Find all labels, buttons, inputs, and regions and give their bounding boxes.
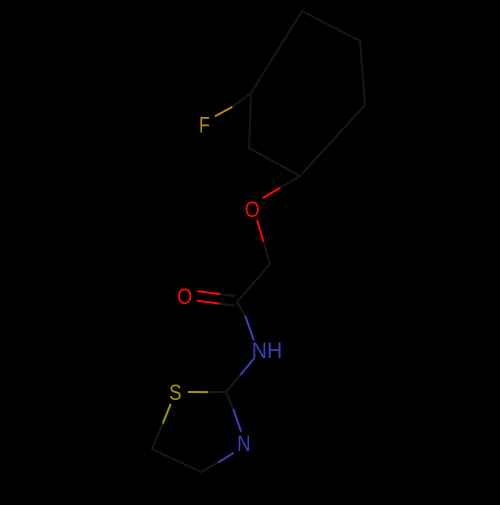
svg-text:O: O (177, 284, 192, 309)
bond Cc-N carbon half (237, 302, 246, 317)
benzene edge A2-A3 (249, 93, 251, 148)
bond Cc-N nitrogen half (246, 317, 254, 340)
bond F-C(aryl) carbon half (233, 93, 251, 107)
benzene edge A4-A5 (302, 11, 360, 41)
benzene edge A1-A2 (249, 148, 300, 176)
bond S-C5 sulfur half (162, 405, 170, 425)
bond Cx-Cc (237, 264, 270, 302)
bond C2-N3 nitrogen half (234, 410, 241, 431)
bond S-C5 carbon half (152, 424, 162, 449)
bond N3-C4 nitrogen half (218, 453, 234, 463)
bond O1-Cx oxygen half (257, 221, 263, 243)
svg-text:F: F (199, 112, 210, 137)
C=O double bond lower line carbon half (221, 304, 235, 306)
bond S-C2 carbon half (209, 391, 226, 393)
svg-text:N: N (237, 431, 251, 456)
C=O double bond upper line oxygen half (198, 291, 221, 294)
bond S-C2 sulfur half (189, 391, 209, 393)
bond N-C2 nitrogen half (240, 359, 254, 376)
bond N3-C4 carbon half (201, 463, 218, 472)
svg-text:O: O (245, 197, 260, 222)
C=O double bond upper line carbon half (221, 294, 234, 296)
benzene edge A5-A6 (360, 41, 365, 105)
bond N-C2 carbon half (226, 376, 240, 393)
benzene edge A3-A4 (251, 11, 302, 93)
bond O1-A1 carbon half (281, 176, 300, 187)
bond O1-Cx carbon half (264, 242, 270, 264)
svg-text:NH: NH (252, 338, 283, 363)
benzene edge A6-A1 (300, 105, 365, 176)
bond C4-C5 (152, 449, 201, 472)
bond C2-N3 carbon half (226, 392, 234, 410)
svg-text:S: S (169, 380, 181, 405)
bond O1-A1 oxygen half (263, 187, 281, 197)
C=O double bond lower line oxygen half (198, 301, 221, 304)
bond F-C(aryl) fluorine half (216, 107, 233, 117)
